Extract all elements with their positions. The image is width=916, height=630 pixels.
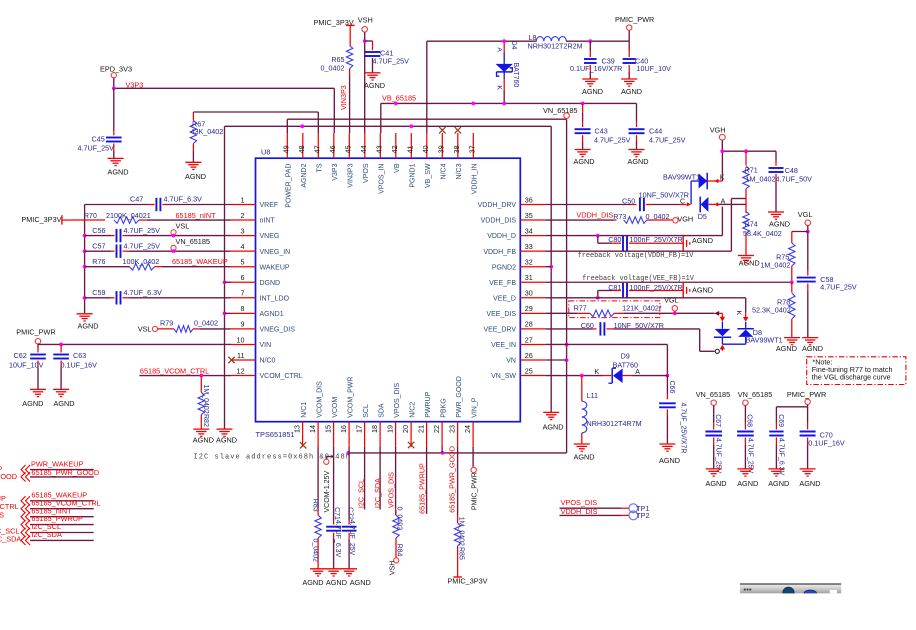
svg-text:PGND2: PGND2 xyxy=(492,264,516,271)
junction xyxy=(83,265,87,269)
svg-text:N/C3: N/C3 xyxy=(456,163,463,179)
junction xyxy=(596,296,600,300)
resistor R77 (dashed box) xyxy=(545,301,662,318)
taskbar fragment xyxy=(740,583,842,598)
ground AGND (C69) xyxy=(768,469,789,488)
svg-text:D4: D4 xyxy=(510,41,517,50)
svg-text:4.7UF_25V: 4.7UF_25V xyxy=(594,136,631,145)
svg-text:VGH: VGH xyxy=(677,214,693,223)
ground AGND right-facing (C80) xyxy=(683,236,713,251)
svg-text:TS: TS xyxy=(317,163,324,172)
pin 15 VCOM (bottom) xyxy=(324,397,339,447)
svg-text:32: 32 xyxy=(525,258,533,267)
svg-text:K: K xyxy=(735,311,742,316)
ground AGND (bus bottom right) xyxy=(543,412,564,431)
pin 42 VB (top) xyxy=(390,133,401,173)
svg-text:65185_WAKEUP: 65185_WAKEUP xyxy=(172,257,228,266)
resistor R76 xyxy=(85,257,231,270)
pin 6 DGND (left) xyxy=(231,273,281,287)
svg-text:R77: R77 xyxy=(574,303,587,312)
svg-text:AGND: AGND xyxy=(22,399,43,408)
svg-text:AGND: AGND xyxy=(574,157,595,166)
svg-text:C71: C71 xyxy=(333,507,340,520)
svg-text:AGND: AGND xyxy=(326,578,347,587)
svg-text:48: 48 xyxy=(297,145,306,153)
svg-text:65185_PWRUP: 65185_PWRUP xyxy=(417,463,426,514)
svg-text:AGND: AGND xyxy=(216,436,237,445)
inductor L8 xyxy=(528,33,583,51)
svg-text:AGND: AGND xyxy=(692,236,713,245)
svg-text:VEE_DRV: VEE_DRV xyxy=(483,327,516,334)
resistor R78 xyxy=(752,282,795,337)
svg-text:C67: C67 xyxy=(714,414,721,427)
svg-text:26: 26 xyxy=(525,351,533,360)
svg-text:38: 38 xyxy=(452,145,461,153)
junction xyxy=(83,249,87,253)
junction xyxy=(581,102,585,106)
junction xyxy=(59,343,63,347)
svg-text:V3P3: V3P3 xyxy=(332,163,339,180)
svg-text:PMIC_PWR: PMIC_PWR xyxy=(472,472,479,510)
svg-text:C56: C56 xyxy=(92,226,105,235)
svg-text:C45: C45 xyxy=(92,135,105,144)
svg-text:40: 40 xyxy=(421,145,430,153)
svg-text:AGND: AGND xyxy=(108,168,129,177)
capacitor C48 xyxy=(769,161,813,212)
svg-text:43K_0402: 43K_0402 xyxy=(191,127,224,136)
svg-text:VPOS: VPOS xyxy=(363,163,370,183)
svg-text:10: 10 xyxy=(237,335,245,344)
svg-text:4.7UF_25V/X7R: 4.7UF_25V/X7R xyxy=(680,403,687,454)
svg-text:VB: VB xyxy=(394,163,401,173)
capacitor C45 xyxy=(78,88,122,158)
net connector VGH (R73) xyxy=(673,214,694,223)
wire pin 24 VIN_P to PMIC_PWR xyxy=(472,447,474,467)
svg-text:65185_PWR_GOOD: 65185_PWR_GOOD xyxy=(31,468,99,477)
resistor R65 xyxy=(321,32,353,76)
ground AGND (left bus) xyxy=(77,314,99,331)
svg-text:nINT: nINT xyxy=(260,218,276,225)
resistor R67 xyxy=(190,112,223,162)
svg-text:PWRUP: PWRUP xyxy=(425,391,432,417)
svg-text:AGND1: AGND1 xyxy=(260,311,284,318)
svg-text:R83: R83 xyxy=(312,499,319,512)
svg-text:PMIC_3P3V: PMIC_3P3V xyxy=(21,215,61,224)
wire pin 8 AGND1 xyxy=(225,312,231,314)
svg-text:I2C_SDA: I2C_SDA xyxy=(31,530,62,539)
ground AGND (C62) xyxy=(22,389,46,408)
capacitor C40 xyxy=(623,41,671,79)
svg-text:0_0402: 0_0402 xyxy=(312,539,319,562)
svg-text:R76: R76 xyxy=(92,257,105,266)
svg-text:121K_0402*: 121K_0402* xyxy=(622,303,662,312)
svg-text:10NF_50V/X7R: 10NF_50V/X7R xyxy=(614,321,664,330)
svg-text:N/C2: N/C2 xyxy=(409,402,416,418)
svg-text:2: 2 xyxy=(241,211,245,220)
junction xyxy=(549,265,553,269)
pin 5 WAKEUP (left) xyxy=(231,258,290,272)
svg-text:36: 36 xyxy=(525,195,533,204)
svg-text:VDDH_DIS: VDDH_DIS xyxy=(561,507,598,516)
svg-text:C47: C47 xyxy=(130,195,143,204)
resistor R75 xyxy=(760,232,807,283)
external label fragment (CTRL) xyxy=(0,502,19,511)
svg-text:4.7UF_25V: 4.7UF_25V xyxy=(124,242,161,251)
pin 19 VPOS_DIS (bottom) xyxy=(386,382,401,446)
net label 65185_nINT xyxy=(176,211,217,220)
capacitor C47 xyxy=(85,195,231,212)
svg-text:C63: C63 xyxy=(73,351,86,360)
junction xyxy=(588,39,592,43)
svg-text:D9: D9 xyxy=(621,352,630,361)
ground AGND (C63) xyxy=(53,389,74,408)
pin 36 VDDH_DRV (right) xyxy=(478,195,546,209)
pin 47 TS (top) xyxy=(313,133,324,172)
svg-text:VDDH_DIS: VDDH_DIS xyxy=(481,218,517,225)
power flag VSH (R84) xyxy=(390,558,399,575)
pin 44 VPOS (top) xyxy=(359,133,370,183)
net label 65185_WAKEUP xyxy=(172,257,228,266)
svg-text:VN_65185: VN_65185 xyxy=(738,390,773,399)
resistor R85 xyxy=(454,515,464,577)
svg-text:17: 17 xyxy=(355,425,364,433)
svg-text:PMIC_PWR: PMIC_PWR xyxy=(787,390,826,399)
svg-text:VDDH_DRV: VDDH_DRV xyxy=(478,202,517,209)
junction xyxy=(673,311,677,315)
svg-text:AGND: AGND xyxy=(776,344,797,353)
svg-text:AGND: AGND xyxy=(193,436,214,445)
svg-text:N/C1: N/C1 xyxy=(301,402,308,418)
svg-text:65185_nINT: 65185_nINT xyxy=(176,211,217,220)
svg-text:VIN_P: VIN_P xyxy=(471,397,478,418)
junction xyxy=(744,149,748,153)
svg-text:N/C4: N/C4 xyxy=(441,163,448,179)
svg-text:L11: L11 xyxy=(587,391,598,400)
svg-text:D5: D5 xyxy=(698,212,707,221)
capacitor C44 xyxy=(629,121,686,149)
svg-text:AGND: AGND xyxy=(799,479,820,488)
junction xyxy=(596,234,600,238)
wire net VGH xyxy=(710,126,776,161)
pin 1 VREF (left) xyxy=(231,195,279,209)
power flag PMIC_PWR (pin 24) xyxy=(471,467,478,510)
net label V3P3 xyxy=(126,80,144,89)
svg-text:K: K xyxy=(496,85,503,90)
wire L8 to PMIC_PWR xyxy=(566,30,629,41)
resistor R83 xyxy=(312,447,322,569)
external label fragment (C_SDA) xyxy=(0,535,21,544)
svg-text:16: 16 xyxy=(339,425,348,433)
net connector VGL (divider) xyxy=(798,210,813,231)
op-amp U8 TPS651851 IC body xyxy=(256,148,521,440)
capacitor C68 xyxy=(737,405,754,473)
svg-text:VN_65185: VN_65185 xyxy=(176,237,211,246)
capacitor C71 xyxy=(326,507,341,568)
svg-text:VGL: VGL xyxy=(798,210,813,219)
svg-text:3: 3 xyxy=(241,226,245,235)
node C (D5 common) xyxy=(680,198,691,206)
net label VPOS_DIS (TP1) xyxy=(561,498,598,507)
svg-text:AGND: AGND xyxy=(302,578,323,587)
diode D8 BAV99WT1 xyxy=(714,311,783,345)
power flag PMIC_PWR (top) xyxy=(615,15,654,30)
wire R77 to VGL / D8 anode xyxy=(624,312,715,314)
capacitor C80 xyxy=(598,235,683,251)
svg-text:VDDH_IN: VDDH_IN xyxy=(472,164,479,195)
ground AGND (C40) xyxy=(621,79,642,96)
resistor R74 xyxy=(743,212,782,256)
pin 41 PGND1 (top) xyxy=(406,133,417,188)
pin 12 VCOM_CTRL (left) xyxy=(231,366,303,380)
ground AGND (C45) xyxy=(108,158,129,176)
svg-text:PMIC_PWR: PMIC_PWR xyxy=(16,327,55,336)
wire net VB_65185 xyxy=(381,103,637,133)
ground AGND (C70) xyxy=(799,469,820,488)
svg-text:VDDH_D: VDDH_D xyxy=(487,233,516,240)
resistor R82 xyxy=(198,376,209,429)
pin 26 VN (right) xyxy=(506,351,545,365)
svg-text:21: 21 xyxy=(417,425,426,433)
svg-text:VN_65185: VN_65185 xyxy=(543,106,578,115)
net connector VN_65185 (C68) xyxy=(738,390,773,406)
svg-text:4.7UF_25V: 4.7UF_25V xyxy=(78,144,115,153)
svg-text:100nF_25V/X7R: 100nF_25V/X7R xyxy=(630,235,683,244)
svg-text:28: 28 xyxy=(525,320,533,329)
capacitor C56 xyxy=(85,226,231,242)
svg-text:K: K xyxy=(595,369,600,376)
junction xyxy=(300,124,304,128)
svg-text:33: 33 xyxy=(525,242,533,251)
pin 2 nINT (left) xyxy=(231,211,276,225)
ground AGND (C48) xyxy=(768,212,790,229)
svg-text:R73: R73 xyxy=(613,212,626,221)
wire net 65185_VCOM_CTRL to pin 12 xyxy=(139,375,230,377)
svg-text:AGND: AGND xyxy=(769,220,790,229)
external label fragment (C_SCL) xyxy=(0,527,20,536)
pin 30 VEE_D (right) xyxy=(493,289,545,303)
junction xyxy=(502,39,506,43)
junction xyxy=(172,249,176,253)
off-page connector 65185_PWR_GOOD xyxy=(21,468,99,482)
capacitor C81 xyxy=(598,283,683,298)
resistor R79 xyxy=(138,319,231,334)
svg-text:AGND: AGND xyxy=(350,578,371,587)
wire pin 33 VDDH_FB feedback xyxy=(545,199,745,252)
svg-text:AGND: AGND xyxy=(659,456,680,465)
svg-text:AGND: AGND xyxy=(692,285,713,294)
svg-text:PWR_GOOD: PWR_GOOD xyxy=(456,376,463,418)
arrow to D8 anode xyxy=(714,311,725,322)
svg-text:24: 24 xyxy=(463,425,472,433)
pin 43 VPOS_IN (top) xyxy=(375,133,386,194)
net label VB_65185 xyxy=(382,93,416,102)
svg-text:PMIC_PWR: PMIC_PWR xyxy=(615,15,654,24)
ground AGND (R83) xyxy=(302,569,326,587)
svg-text:VREF: VREF xyxy=(260,202,279,209)
power flag PMIC_3P3V (R85) xyxy=(447,577,487,586)
net connector PMIC_PWR (C69/C70) xyxy=(787,390,826,405)
svg-text:20: 20 xyxy=(401,425,410,433)
svg-text:VIN3P3: VIN3P3 xyxy=(348,163,355,187)
pin 34 VDDH_D (right) xyxy=(487,226,545,240)
svg-text:AGND: AGND xyxy=(802,344,823,353)
pin 4 VNEG_IN (left) xyxy=(231,242,291,256)
svg-text:PMIC_3P3V: PMIC_3P3V xyxy=(447,577,487,586)
svg-text:6: 6 xyxy=(241,273,245,282)
svg-text:NRH3012T2R2M: NRH3012T2R2M xyxy=(528,41,583,50)
svg-text:VSL: VSL xyxy=(176,222,190,231)
junction xyxy=(394,102,398,106)
svg-text:PBKG: PBKG xyxy=(440,398,447,417)
svg-text:15: 15 xyxy=(324,425,333,433)
pin 18 SDA (bottom) xyxy=(370,403,385,447)
ground AGND (R78) xyxy=(776,338,800,353)
svg-text:4.7UF_25V: 4.7UF_25V xyxy=(649,136,686,145)
svg-text:PGND1: PGND1 xyxy=(410,163,417,187)
svg-text:R84: R84 xyxy=(396,544,403,557)
svg-text:65185_VCOM_CTRL: 65185_VCOM_CTRL xyxy=(140,366,209,375)
svg-text:AGND: AGND xyxy=(582,87,603,96)
ground AGND (C44) xyxy=(628,150,649,167)
svg-text:VEE_DIS: VEE_DIS xyxy=(486,311,516,318)
svg-text:31: 31 xyxy=(525,273,533,282)
ground AGND (C66) xyxy=(659,444,680,465)
capacitor C63 xyxy=(53,344,97,389)
svg-text:SDA: SDA xyxy=(378,403,385,418)
svg-text:27: 27 xyxy=(525,335,533,344)
svg-text:1: 1 xyxy=(241,195,245,204)
svg-text:VSL: VSL xyxy=(138,325,152,334)
svg-text:C69: C69 xyxy=(777,414,784,427)
junction xyxy=(806,230,810,234)
svg-text:0.1UF_16V: 0.1UF_16V xyxy=(61,360,98,369)
svg-text:C48: C48 xyxy=(785,166,798,175)
net connector VN_65185 (C67) xyxy=(696,390,731,406)
net connector VSL (pin 3) xyxy=(171,222,189,235)
wire pin 40 VB_SW to L8 xyxy=(427,41,537,133)
svg-text:A: A xyxy=(496,47,503,52)
svg-text:I2C_SCL: I2C_SCL xyxy=(357,479,366,508)
pin 46 V3P3 (top) xyxy=(328,133,339,181)
diode D4 BAT760 xyxy=(496,41,512,103)
junction xyxy=(790,280,794,284)
svg-text:10UF_10V: 10UF_10V xyxy=(637,64,672,73)
power flag PMIC_3P3V (R65) xyxy=(314,18,355,32)
wire pin 26 VN xyxy=(545,359,566,361)
wire pin 22 PBKG to VN xyxy=(441,447,443,453)
svg-text:BAV99WT1: BAV99WT1 xyxy=(663,172,700,181)
svg-text:VN: VN xyxy=(506,358,516,365)
inductor L11 xyxy=(582,376,642,444)
pin 14 VCOM_DIS (bottom) xyxy=(308,381,323,447)
svg-text:VCOM: VCOM xyxy=(332,397,339,418)
test point TP2 xyxy=(560,511,650,520)
net label VDDH_DIS xyxy=(576,211,613,220)
svg-text:S: S xyxy=(0,511,4,520)
net connector VN_65185 (pin 4) xyxy=(171,237,210,250)
pin 16 VCOM_PWR (bottom) xyxy=(339,377,354,447)
ground AGND (R74) xyxy=(738,256,760,268)
pin 7 INT_LDO (left) xyxy=(231,289,290,303)
capacitor C59 xyxy=(85,288,231,304)
capacitor C66 xyxy=(659,376,686,454)
wire pin 23 PWR_GOOD / net 65185_PWR_GOOD xyxy=(448,446,458,515)
svg-text:4.7UF_6.3V: 4.7UF_6.3V xyxy=(334,520,341,558)
junction xyxy=(363,39,367,43)
pin 9 VNEG_DIS (left) xyxy=(231,320,296,334)
ground AGND (C67) xyxy=(706,469,727,488)
svg-text:INT_LDO: INT_LDO xyxy=(260,295,290,302)
test point TP1 xyxy=(560,504,650,513)
svg-text:VPOS_IN: VPOS_IN xyxy=(379,164,386,194)
pin 11 N/C0 (left) xyxy=(228,351,275,365)
junction xyxy=(112,86,116,90)
net connector VN_65185 (bus corner) xyxy=(543,106,578,119)
svg-text:1M_0402: 1M_0402 xyxy=(202,385,209,414)
svg-text:VEE_D: VEE_D xyxy=(493,295,516,302)
svg-text:C50: C50 xyxy=(622,197,635,206)
svg-text:4.7UF_6.3V: 4.7UF_6.3V xyxy=(164,195,203,204)
svg-text:AGND: AGND xyxy=(737,479,758,488)
svg-text:47: 47 xyxy=(313,145,322,153)
pin 21 PWRUP (bottom) xyxy=(417,391,432,446)
svg-text:R70: R70 xyxy=(84,211,97,220)
svg-text:C59: C59 xyxy=(92,288,105,297)
capacitor C43 xyxy=(575,103,631,149)
svg-text:5: 5 xyxy=(241,258,245,267)
svg-text:VCOM_PWR: VCOM_PWR xyxy=(347,377,354,418)
wire AGND bus (AGND2/PGND1/PGND2) xyxy=(225,126,552,429)
pin 29 VEE_DIS (right) xyxy=(486,304,545,318)
ground AGND (R67) xyxy=(185,162,206,181)
wire pin 19 VPOS_DIS / net label xyxy=(387,447,396,508)
junction xyxy=(409,124,413,128)
capacitor C72 xyxy=(342,507,357,568)
net connector VGL (R77) xyxy=(664,296,679,314)
wire pin 30 VEE_D to D8 cathode xyxy=(545,298,745,312)
wire POWER_PAD / VN bus (pin 49) xyxy=(287,119,566,453)
pin 10 VIN (left) xyxy=(231,335,272,349)
svg-text:AGND: AGND xyxy=(739,259,760,268)
pin 13 N/C1 (bottom) xyxy=(293,402,308,449)
pin 20 N/C2 (bottom) xyxy=(401,402,416,448)
svg-text:SCL: SCL xyxy=(363,404,370,418)
junction xyxy=(580,374,584,378)
note freeback voltage VDDH xyxy=(578,252,695,260)
svg-text:45: 45 xyxy=(344,145,353,153)
svg-text:VN_SW: VN_SW xyxy=(491,373,516,380)
svg-text:the VGL discharge curve: the VGL discharge curve xyxy=(812,373,891,382)
capacitor C50 xyxy=(545,191,689,212)
svg-text:AGND: AGND xyxy=(768,479,789,488)
svg-text:AGND: AGND xyxy=(78,322,99,331)
svg-text:39: 39 xyxy=(437,145,446,153)
ground AGND (C71) xyxy=(326,569,347,587)
pin 25 VN_SW (right) xyxy=(491,366,545,380)
pin 40 VB_SW (top) xyxy=(421,133,432,188)
wire pin 32 PGND2 to AGND bus xyxy=(545,266,551,268)
svg-text:V3P3: V3P3 xyxy=(126,80,144,89)
capacitor C58 xyxy=(797,232,857,338)
off-page connector 65185_PWRUP xyxy=(21,514,94,529)
pin 49 POWER_PAD (top) xyxy=(282,133,293,208)
svg-text:R71: R71 xyxy=(745,166,758,175)
svg-text:9: 9 xyxy=(241,320,245,329)
svg-text:EPD_3V3: EPD_3V3 xyxy=(100,65,132,74)
pin 39 N/C4 (top) xyxy=(437,127,448,179)
svg-text:VIN: VIN xyxy=(260,342,272,349)
pin 24 VIN_P (bottom) xyxy=(463,397,478,446)
